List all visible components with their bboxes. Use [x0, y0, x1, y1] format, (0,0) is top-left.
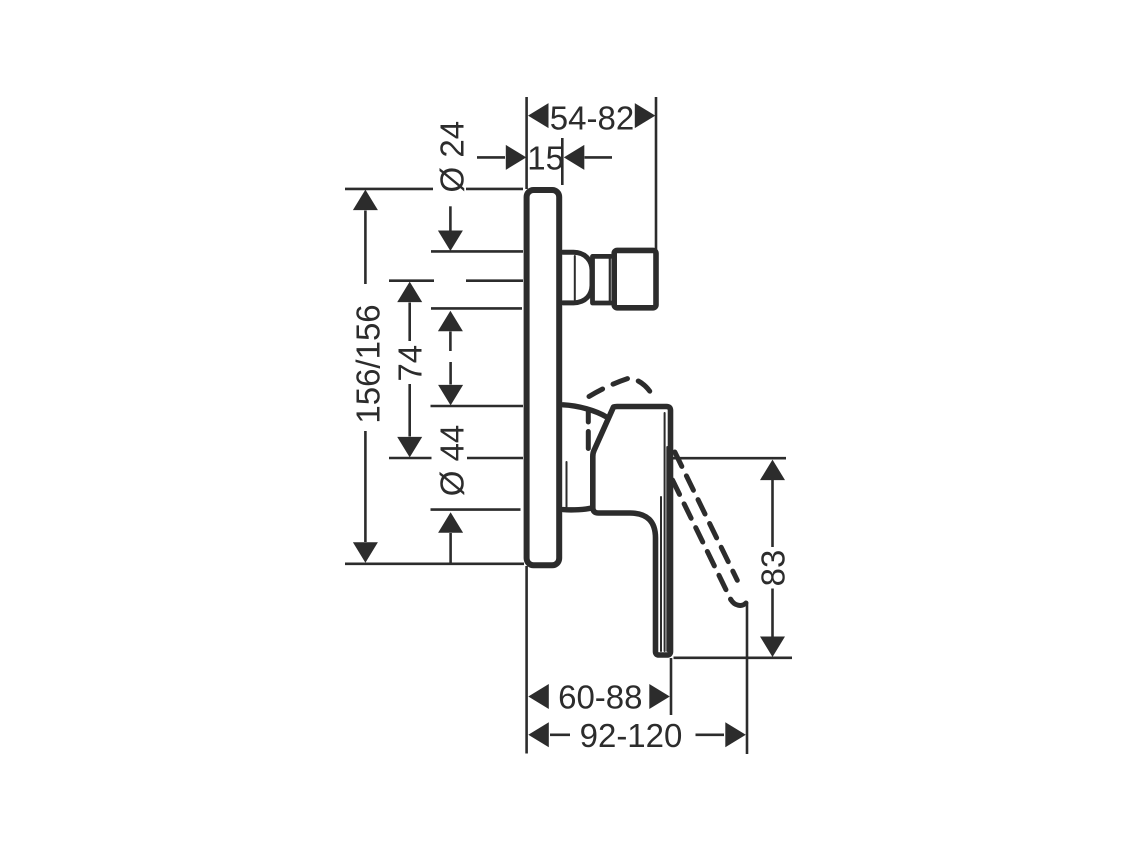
- svg-text:54-82: 54-82: [550, 99, 634, 136]
- svg-text:74: 74: [392, 345, 429, 382]
- svg-text:Ø 24: Ø 24: [433, 121, 470, 193]
- svg-text:60-88: 60-88: [558, 679, 642, 716]
- svg-text:156/156: 156/156: [350, 304, 387, 423]
- svg-text:92-120: 92-120: [580, 717, 683, 754]
- svg-text:83: 83: [755, 550, 792, 587]
- svg-text:Ø 44: Ø 44: [434, 425, 471, 497]
- svg-text:15: 15: [527, 140, 564, 177]
